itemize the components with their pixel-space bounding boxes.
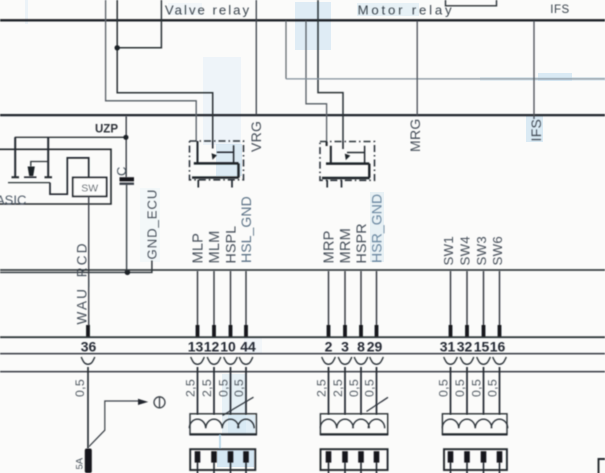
connector housing X2	[320, 414, 387, 435]
transistor Q2 drain stub	[342, 142, 344, 150]
wire IFS	[533, 21, 535, 119]
socket cup pin 36	[81, 357, 95, 364]
svg-text:IFS: IFS	[528, 119, 544, 142]
wire MRG	[416, 21, 418, 116]
connector plug Y1	[190, 449, 255, 470]
connector rail line 3	[0, 371, 605, 373]
wire below plug Y2 pin 2	[344, 463, 346, 473]
wire HSR_GND harness	[376, 367, 378, 415]
svg-text:HSL_GND: HSL_GND	[238, 196, 254, 263]
transistor Q2 arrow	[345, 154, 351, 161]
plug Y1 pin 3	[228, 451, 234, 462]
connector housing X3 bottom edge	[442, 433, 508, 435]
connector housing X2 sockets	[320, 419, 384, 428]
pin contact MLM	[212, 325, 216, 338]
svg-text:15: 15	[474, 339, 490, 355]
twisted pair slash group 1	[223, 397, 254, 415]
socket cup pin SW6	[493, 357, 507, 364]
wire below plug Y3 pin 4	[499, 463, 501, 473]
transistor foot	[24, 176, 37, 178]
wire SW3 to pin	[483, 271, 485, 326]
ground arrow	[138, 399, 148, 405]
connector housing X1 bottom edge	[190, 433, 257, 435]
wire UZP to capacitor	[125, 116, 127, 177]
svg-text:SW1: SW1	[441, 236, 456, 265]
transistor Q2 gate bar	[327, 142, 331, 163]
svg-text:MRM: MRM	[338, 228, 354, 263]
wire UZP supply	[15, 136, 126, 138]
connector plug Y2	[321, 449, 388, 470]
socket cup pin HSR_GND	[370, 357, 384, 364]
wire WAU_RCD	[88, 196, 90, 325]
pin contact SW1	[449, 325, 453, 338]
transistor body (ASIC driver)	[28, 167, 35, 177]
svg-text:MLM: MLM	[207, 230, 223, 263]
relay box bracket top	[446, 0, 497, 6]
wire below plug Y3 pin 2	[466, 463, 468, 473]
wire below plug Y1 pin 1	[197, 463, 199, 473]
svg-text:UZP: UZP	[95, 124, 118, 136]
svg-text:5A: 5A	[75, 457, 86, 469]
plug Y1 pin 1	[195, 451, 201, 462]
wire HSPR to pin	[360, 271, 362, 326]
transistor bar right	[45, 137, 53, 177]
wire MRM harness	[344, 367, 346, 415]
svg-text:29: 29	[367, 339, 383, 355]
plug Y1 pin 4	[243, 451, 249, 462]
ground terminal symbol	[154, 397, 165, 408]
transistor Q1 body	[192, 163, 239, 177]
wire SW1 harness	[450, 367, 452, 415]
transistor gate link	[31, 162, 48, 167]
plug Y2 pin 3	[358, 451, 364, 462]
connector housing X2 bottom edge	[320, 433, 388, 435]
socket cup pin SW4	[460, 357, 474, 364]
junction dot GND	[125, 270, 131, 276]
connector housing X1 sockets	[189, 419, 254, 428]
svg-text:12: 12	[204, 339, 220, 355]
svg-text:SW3: SW3	[474, 236, 489, 265]
wire SW6 to pin	[499, 271, 501, 326]
svg-text:2: 2	[325, 339, 333, 355]
transistor Q1 drain stub	[212, 141, 214, 149]
svg-text:3: 3	[341, 339, 349, 355]
svg-text:2,5: 2,5	[314, 379, 328, 397]
svg-text:ASIC: ASIC	[0, 193, 26, 208]
transistor Q1 pins bottom	[198, 180, 232, 188]
svg-text:Motor relay: Motor relay	[358, 3, 455, 18]
wire MLM to pin	[213, 271, 215, 326]
wire VRG	[255, 0, 257, 115]
pin contact MRM	[343, 325, 347, 338]
socket cup pin MLP	[191, 357, 205, 364]
wire HSPL to pin	[230, 271, 232, 326]
bus line top	[0, 19, 605, 21]
socket cup pin MLM	[207, 357, 221, 364]
transistor Q1 step wire	[217, 145, 234, 163]
pin contact SW3	[482, 325, 486, 338]
wire MRP to pin	[328, 271, 330, 326]
plug Y3 pin 3	[481, 451, 487, 462]
svg-text:HSR_GND: HSR_GND	[368, 194, 384, 263]
svg-text:IFS: IFS	[550, 4, 569, 16]
wire 36 harness	[87, 367, 89, 449]
socket cup pin SW3	[477, 357, 491, 364]
plug Y3 pin 4	[497, 451, 503, 462]
pin contact HSPR	[359, 325, 363, 338]
partial element bottom right	[599, 459, 605, 473]
bus line middle	[0, 114, 605, 116]
socket cup pin HSL_GND	[239, 357, 253, 364]
wire MLP to pin	[197, 271, 199, 326]
pin contact MRP	[327, 325, 331, 338]
wire (highlighted) between connectors group 1	[219, 435, 221, 450]
component SW box	[73, 178, 107, 197]
svg-text:C: C	[114, 167, 129, 176]
wire GND_ECU	[0, 261, 152, 273]
transistor Q2 body	[322, 164, 370, 178]
pin contact SW4	[465, 325, 469, 338]
svg-text:2,5: 2,5	[183, 379, 197, 397]
svg-text:SW: SW	[81, 183, 98, 195]
wire SW4 harness	[466, 367, 468, 415]
plug Y3 pin 2	[464, 451, 470, 462]
wire SW1 to pin	[450, 271, 452, 326]
plug Y3 pin 1	[448, 451, 454, 462]
svg-text:0,5: 0,5	[453, 379, 467, 397]
wire MRP harness	[328, 367, 330, 415]
svg-text:0,5: 0,5	[216, 379, 230, 397]
wire below plug Y2 pin 4	[376, 463, 378, 473]
wire separator above bus left	[160, 0, 162, 19]
svg-text:16: 16	[490, 339, 506, 355]
wire capacitor to ground	[126, 185, 128, 272]
ECU box	[0, 149, 111, 204]
svg-text:VRG: VRG	[248, 121, 264, 152]
svg-text:2,5: 2,5	[200, 379, 214, 397]
svg-text:GND_ECU: GND_ECU	[145, 189, 160, 260]
junction dot UZP	[123, 135, 128, 140]
wire horizontal off-page right	[286, 78, 605, 80]
wire below plug Y2 pin 3	[360, 463, 362, 473]
wire HSL_GND to pin	[245, 271, 247, 326]
socket cup pin MRP	[322, 357, 336, 364]
ECU boundary bottom line	[0, 269, 605, 271]
connector plug Y3	[444, 449, 507, 470]
socket cup pin HSPL	[224, 357, 238, 364]
wire motor relay contact (dark staircase to Q2 drain)	[318, 0, 343, 142]
socket cup pin MRM	[338, 357, 352, 364]
transistor Q1 channel bar	[194, 162, 239, 165]
svg-text:32: 32	[457, 339, 473, 355]
wire MRM to pin	[344, 271, 346, 326]
twisted pair slash group 2	[367, 397, 389, 411]
wire MLM harness	[213, 367, 215, 415]
svg-text:WAU_RCD: WAU_RCD	[75, 241, 90, 324]
pin contact SW6	[498, 325, 502, 338]
svg-text:Valve relay: Valve relay	[165, 3, 251, 18]
wire SW3 harness	[483, 367, 485, 415]
fuse F1 on wire 36	[85, 449, 92, 473]
socket cup pin HSPR	[354, 357, 368, 364]
svg-text:0,5: 0,5	[469, 379, 483, 397]
svg-text:44: 44	[240, 339, 256, 355]
wire below plug Y1 pin 2	[213, 463, 215, 473]
svg-text:0,5: 0,5	[232, 379, 246, 397]
svg-text:0,5: 0,5	[436, 379, 450, 397]
svg-text:SW6: SW6	[490, 236, 505, 265]
transistor bar left	[12, 137, 20, 177]
pin contact HSPL	[229, 325, 233, 338]
wire staircase to SW	[50, 158, 89, 194]
pin contact MLP	[196, 325, 200, 338]
svg-text:MRG: MRG	[407, 118, 423, 152]
pin contact HSR_GND	[375, 325, 379, 338]
wire HSPL harness	[230, 367, 232, 415]
connector housing X3 sockets	[442, 419, 507, 428]
transistor Q2 pins bottom	[327, 180, 341, 188]
svg-text:36: 36	[81, 339, 97, 355]
junction dot	[115, 45, 120, 50]
wire HSPR harness	[360, 367, 362, 415]
svg-text:0,5: 0,5	[347, 379, 361, 397]
connector housing X3	[442, 414, 507, 435]
wire to right edge	[285, 21, 287, 79]
svg-text:2,5: 2,5	[331, 379, 345, 397]
wire below plug Y1 pin 4	[245, 463, 247, 473]
transistor Q1 arrow	[212, 153, 218, 160]
connector rail line 2	[0, 353, 605, 355]
svg-text:MRP: MRP	[322, 230, 338, 263]
substrate line	[8, 182, 50, 184]
svg-text:13: 13	[188, 339, 204, 355]
transistor Q2 channel bar	[326, 162, 369, 165]
pin contact HSL_GND	[244, 325, 248, 338]
svg-text:SW4: SW4	[458, 236, 473, 265]
wire below plug Y3 pin 3	[483, 463, 485, 473]
wire branch from bus to junction	[117, 20, 161, 48]
transistor module Q1 box	[190, 141, 244, 180]
connector housing X1	[190, 414, 256, 435]
wire HSL_GND harness	[245, 367, 247, 415]
svg-text:MLP: MLP	[191, 233, 207, 264]
plug Y2 pin 1	[326, 451, 332, 462]
capacitor C plate top	[120, 177, 135, 181]
wire below plug Y3 pin 1	[450, 463, 452, 473]
wire SW6 harness	[499, 367, 501, 415]
wire SW4 to pin	[466, 271, 468, 326]
wire ground annotation	[89, 401, 138, 447]
capacitor C plate bottom	[120, 183, 135, 185]
pin contact 36	[86, 325, 90, 338]
svg-text:0,5: 0,5	[485, 379, 499, 397]
connector rail line 1	[0, 336, 605, 338]
plug Y2 pin 4	[374, 451, 380, 462]
wire valve relay coil (gray staircase to Q1 gate)	[106, 0, 197, 142]
plug Y1 pin 2	[211, 451, 217, 462]
transistor Q1 gate bar	[196, 141, 198, 163]
socket cup pin SW1	[444, 357, 458, 364]
wire motor relay coil (gray staircase to Q2 gate)	[306, 21, 327, 142]
transistor module Q2 box	[320, 142, 375, 181]
wire HSR_GND to pin	[376, 271, 378, 326]
wire below plug Y2 pin 1	[328, 463, 330, 473]
svg-text:31: 31	[440, 339, 456, 355]
svg-text:0,5: 0,5	[362, 379, 376, 397]
plug Y2 pin 2	[342, 451, 348, 462]
wire MLP harness	[197, 367, 199, 415]
wire valve relay contact (dark staircase to Q1 drain)	[117, 0, 213, 142]
svg-text:0,5: 0,5	[73, 379, 87, 397]
svg-text:8: 8	[357, 339, 365, 355]
svg-text:10: 10	[220, 339, 236, 355]
transistor Q2 step wire	[347, 146, 365, 164]
wire below plug Y1 pin 3	[230, 463, 232, 473]
